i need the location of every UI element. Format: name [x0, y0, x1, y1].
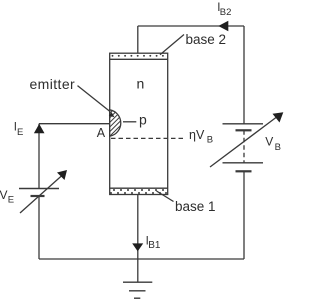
svg-text:B2: B2	[220, 7, 232, 18]
dots of base 2 contact	[112, 55, 164, 57]
arrow IE (up)	[34, 124, 45, 133]
label pointer: base 2	[160, 35, 184, 55]
ground	[123, 282, 152, 298]
base 2 contact band bottom line	[110, 58, 168, 60]
svg-text:ηV: ηV	[189, 128, 205, 142]
svg-text:B: B	[275, 142, 281, 153]
dots of base 1 contact	[110, 189, 167, 194]
n-type bar outline	[110, 53, 168, 194]
wire: base 1 to bottom rail	[137, 195, 139, 260]
base 1 contact band top line	[110, 187, 168, 189]
label pointer: base 1	[157, 191, 174, 202]
svg-text:A: A	[97, 126, 106, 140]
svg-text:E: E	[17, 127, 23, 138]
arrow IB2 (left)	[218, 21, 228, 31]
svg-text:E: E	[8, 194, 14, 205]
label pointer: emitter	[78, 86, 111, 112]
svg-text:p: p	[139, 112, 147, 128]
wire: left side lower	[38, 196, 40, 259]
svg-text:emitter: emitter	[30, 76, 76, 92]
arrow IB1 (down)	[132, 243, 143, 251]
battery VE	[19, 170, 67, 213]
wire: right side upper	[243, 26, 245, 124]
wire: bar top to top rail	[137, 26, 139, 53]
wire: ground stem	[137, 259, 139, 282]
emitter pointer arrowhead	[109, 112, 115, 117]
dashed tap link	[243, 130, 245, 163]
svg-text:V: V	[265, 135, 273, 149]
wire: left side upper	[38, 124, 40, 189]
svg-text:base 1: base 1	[175, 199, 216, 214]
svg-text:n: n	[137, 76, 145, 92]
label pointer: p	[123, 121, 136, 123]
svg-text:base 2: base 2	[186, 32, 227, 47]
emitter p-region	[103, 93, 130, 148]
wire: top rail	[138, 25, 244, 27]
svg-text:B1: B1	[148, 240, 161, 251]
wire: right side lower	[243, 172, 245, 260]
dashed line A to eta VB	[111, 137, 185, 139]
wire: emitter horizontal	[39, 123, 110, 125]
svg-text:B: B	[207, 135, 213, 146]
wire: bottom rail	[39, 258, 244, 260]
svg-text:V: V	[0, 188, 8, 202]
battery VB (two cells, tapped)	[210, 112, 283, 171]
